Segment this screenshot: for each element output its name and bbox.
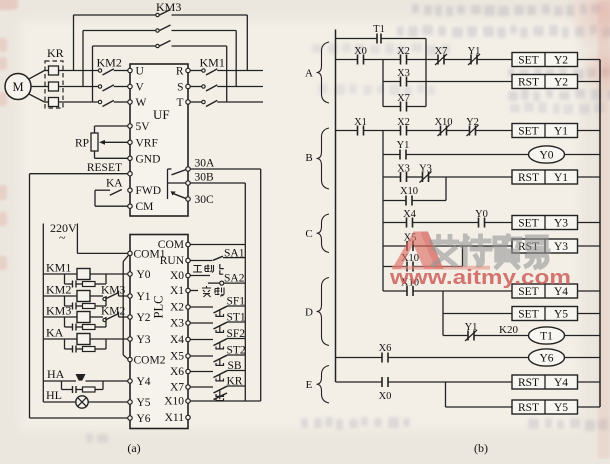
PLC terminal COM1: [128, 248, 166, 260]
svg-text:Y2: Y2: [466, 117, 479, 128]
svg-text:KR: KR: [47, 46, 64, 60]
svg-text:X6: X6: [170, 366, 184, 378]
svg-text:SF1: SF1: [227, 296, 246, 308]
svg-text:K20: K20: [499, 324, 518, 336]
svg-text:R: R: [176, 66, 184, 78]
svg-text:Y1: Y1: [554, 126, 568, 138]
rung B brace: [305, 128, 329, 189]
contact X10 parallel X5: [383, 253, 463, 272]
svg-text:KM1: KM1: [200, 56, 225, 70]
SET Y4 box: [512, 284, 600, 298]
svg-text:Y3: Y3: [419, 164, 432, 175]
UF terminal U: [128, 66, 145, 78]
SET Y1 box: [512, 124, 600, 138]
SET Y3 box: [512, 216, 600, 230]
wire X1 row dash: [190, 290, 198, 292]
svg-text:X10: X10: [164, 396, 184, 408]
watermark text 艾特贸易: [432, 236, 548, 267]
SET Y2 box: [512, 53, 600, 67]
X10 common row contact: [190, 393, 261, 401]
svg-text:X2: X2: [397, 117, 410, 128]
svg-text:(b): (b): [474, 441, 488, 455]
PLC terminal X5: [170, 351, 190, 363]
contact Y1 NC: [444, 46, 512, 65]
wire 30B to inner bus: [190, 182, 245, 184]
wire bypass right drop to S: [235, 31, 237, 87]
RST Y5 row: [446, 406, 513, 408]
svg-text:X4: X4: [403, 209, 417, 220]
UF terminal FWD: [128, 185, 161, 197]
svg-text:SF2: SF2: [227, 328, 246, 340]
label 工频 (power frequency): [193, 265, 214, 273]
PLC terminal X6: [170, 366, 190, 378]
svg-text:X6: X6: [379, 343, 392, 354]
wire COM to inner bus: [190, 244, 245, 246]
wire KR to KM2 row V: [59, 86, 101, 88]
svg-text:Y5: Y5: [554, 402, 568, 414]
svg-text:30B: 30B: [195, 172, 215, 184]
KM3 bypass contact 1: [74, 10, 248, 17]
svg-text:RST: RST: [518, 402, 539, 414]
svg-text:KA: KA: [46, 326, 64, 340]
contact X7 branch: [383, 93, 426, 112]
svg-text:RST: RST: [518, 377, 539, 389]
contactor KM2 main contacts: [97, 56, 129, 107]
UF terminal R: [176, 66, 190, 78]
UF terminal V: [128, 82, 145, 94]
svg-text:Y1: Y1: [137, 291, 151, 303]
selector SA2: [208, 273, 245, 286]
wire X0 row: [190, 275, 210, 277]
wire motor to KR row U: [28, 71, 48, 80]
svg-text:X7: X7: [435, 46, 448, 57]
pushbutton SF2: [190, 328, 245, 349]
contact X2 rung B: [364, 117, 410, 136]
svg-text:www.aitmy.com: www.aitmy.com: [389, 266, 571, 289]
UF terminal 30A: [186, 158, 215, 172]
contactor coil KM3 with RC snubber and KM2 interlock: [43, 304, 128, 331]
svg-text:E: E: [306, 379, 313, 391]
svg-text:X0: X0: [379, 391, 392, 402]
svg-text:X2: X2: [170, 302, 184, 314]
wire bypass right drop to T: [226, 46, 228, 102]
contact X5: [383, 233, 512, 252]
svg-text:C: C: [305, 228, 312, 240]
svg-text:Y0: Y0: [475, 209, 488, 220]
selector SA1 (RUN row): [190, 248, 245, 275]
svg-text:X3: X3: [170, 318, 184, 330]
ladder right rail: [599, 60, 601, 408]
UF terminal RESET: [128, 172, 132, 176]
UF terminal CM: [128, 201, 154, 213]
rung D feed vertical: [442, 291, 444, 336]
svg-text:Y6: Y6: [539, 353, 553, 365]
PLC terminal X2: [170, 302, 190, 314]
rung E brace: [306, 366, 329, 404]
PLC terminal X7: [170, 382, 190, 394]
rung D brace: [305, 278, 329, 346]
coil Y6: [529, 349, 601, 366]
svg-text:X3: X3: [397, 164, 410, 175]
X10 branch join vertical: [445, 177, 447, 201]
svg-text:KR: KR: [227, 376, 243, 388]
wire bypass right drop to R: [246, 15, 248, 71]
watermark aitmy logo A: [392, 232, 444, 270]
svg-text:Y4: Y4: [137, 376, 151, 388]
svg-text:PLC: PLC: [152, 296, 166, 319]
rung B-C shared vertical: [382, 131, 384, 292]
supply left bar: [42, 224, 44, 403]
svg-text:COM2: COM2: [134, 355, 166, 367]
contact Y0: [413, 209, 513, 228]
bus from 30A down to X10 row: [260, 169, 262, 401]
KA contact wiring: [95, 190, 128, 207]
rung C brace: [305, 214, 329, 253]
RST Y2 box: [512, 75, 600, 89]
svg-text:M: M: [12, 80, 23, 94]
svg-text:Y6: Y6: [137, 413, 151, 425]
X10-X5 join vertical: [462, 246, 464, 267]
svg-text:X11: X11: [165, 412, 185, 424]
inverter UF box: [130, 64, 188, 216]
svg-text:X4: X4: [170, 334, 184, 346]
RST Y3 box: [512, 239, 600, 253]
svg-text:X2: X2: [397, 46, 410, 57]
rung A brace: [305, 42, 329, 103]
UF terminal T: [176, 97, 190, 109]
pushbutton ST1: [190, 312, 246, 333]
wire motor to KR row V: [31, 86, 49, 88]
buzzer HA with RC snubber: [43, 367, 128, 393]
PLC terminal X3: [170, 318, 190, 330]
PLC terminal COM: [158, 239, 190, 251]
timer contact T1 branch: [336, 24, 427, 44]
PLC terminal X1: [170, 285, 190, 297]
PLC terminal X11: [165, 412, 191, 424]
svg-text:Y0: Y0: [137, 269, 151, 281]
svg-text:CM: CM: [136, 201, 154, 213]
svg-text:ST1: ST1: [227, 312, 246, 324]
UF terminal 30C: [186, 194, 214, 206]
KM3 bypass contact 2: [83, 25, 236, 32]
timer coil T1: [529, 327, 601, 344]
svg-text:X0: X0: [354, 46, 367, 57]
supply right bar to COM1: [77, 224, 128, 254]
contact X3 branch: [383, 68, 512, 87]
svg-text:30A: 30A: [195, 158, 216, 170]
svg-text:Y2: Y2: [554, 55, 568, 67]
svg-text:Y1: Y1: [468, 46, 481, 57]
wire KR to KM2 row W: [59, 101, 101, 103]
svg-text:B: B: [305, 152, 312, 164]
UF terminal VRF: [128, 137, 158, 149]
contact X2: [364, 46, 410, 65]
svg-text:5V: 5V: [136, 121, 151, 133]
svg-text:A: A: [305, 68, 313, 80]
wire bypass left drop 1: [73, 15, 75, 71]
svg-text:FWD: FWD: [136, 185, 162, 197]
KM3 bypass contact 3: [93, 41, 227, 48]
svg-text:ST2: ST2: [227, 345, 246, 357]
RST Y5 box: [512, 400, 600, 414]
PLC terminal X10: [164, 396, 190, 408]
relay coil KA with RC snubber: [43, 326, 128, 353]
PLC terminal X0: [170, 270, 190, 282]
contact Y3 NC: [407, 164, 513, 183]
contact X10 rung C2: [383, 278, 512, 297]
svg-text:SB: SB: [228, 360, 242, 372]
svg-text:X10: X10: [400, 186, 418, 197]
contactor coil KM1 with RC snubber: [43, 261, 128, 288]
svg-text:Y5: Y5: [554, 309, 568, 321]
contact X7 NC: [407, 46, 448, 65]
svg-text:KM2: KM2: [97, 56, 122, 70]
svg-text:Y3: Y3: [554, 241, 568, 253]
svg-text:T1: T1: [540, 331, 553, 343]
220V supply label: [43, 221, 77, 245]
svg-text:T: T: [176, 97, 183, 109]
svg-text:Y1: Y1: [397, 140, 410, 151]
contact X10 branch rung B: [383, 186, 446, 206]
svg-text:SET: SET: [518, 309, 538, 321]
contactor coil KM2 with RC snubber and KM3 interlock: [43, 283, 128, 310]
contact X3 rung B: [383, 164, 410, 183]
svg-text:RST: RST: [518, 172, 539, 184]
svg-text:~: ~: [59, 231, 66, 245]
contact X4: [383, 209, 417, 228]
svg-text:Y2: Y2: [137, 312, 151, 324]
svg-text:X5: X5: [170, 351, 184, 363]
svg-text:Y1: Y1: [554, 172, 568, 184]
contact X1: [336, 117, 367, 136]
contact Y1 NC rung D: [443, 322, 529, 341]
contact Y2 NC: [447, 117, 513, 136]
svg-text:VRF: VRF: [136, 137, 158, 149]
rung E branch vertical: [445, 382, 447, 407]
svg-text:KA: KA: [106, 178, 123, 190]
svg-text:SET: SET: [518, 126, 538, 138]
svg-text:RST: RST: [518, 77, 539, 89]
contactor KM1 main contacts: [190, 56, 263, 107]
contact X10 NC: [407, 117, 453, 136]
wire RESET to left rail down to Y6: [30, 174, 129, 418]
inverter relay changeover 30A-30B-30C: [168, 169, 187, 199]
svg-text:KM2: KM2: [46, 283, 71, 297]
wire KR to KM2 row U: [59, 70, 101, 72]
svg-text:HA: HA: [47, 367, 65, 381]
wire bypass left drop 3: [92, 46, 94, 102]
parallel branch right vertical (rung A): [425, 39, 427, 107]
svg-text:X3: X3: [397, 68, 410, 79]
svg-text:S: S: [177, 82, 183, 94]
svg-text:X10: X10: [434, 117, 452, 128]
contact Y1 branch: [383, 140, 529, 160]
PLC box: [130, 235, 188, 429]
thermal relay KR (dashed box with heaters): [45, 46, 64, 108]
svg-text:Y0: Y0: [539, 150, 553, 162]
svg-text:X1: X1: [170, 285, 184, 297]
relay contact KA (FWD-CM): [106, 178, 128, 191]
UF terminal S: [177, 82, 190, 94]
svg-text:RESET: RESET: [87, 162, 122, 174]
label 变频 (variable frequency): [202, 286, 224, 297]
UF terminal GND: [128, 153, 161, 165]
svg-text:SET: SET: [518, 218, 538, 230]
svg-text:COM: COM: [158, 239, 184, 251]
svg-text:GND: GND: [136, 153, 161, 165]
RST Y1 box: [512, 170, 600, 184]
potentiometer RP: [75, 126, 128, 158]
wire bypass left drop 2: [82, 31, 84, 87]
pushbutton KR: [190, 376, 245, 397]
pushbutton SB: [190, 360, 245, 381]
svg-text:V: V: [136, 82, 145, 94]
PLC terminal Y6: [128, 413, 151, 425]
svg-text:RUN: RUN: [160, 255, 185, 267]
svg-text:W: W: [136, 97, 147, 109]
svg-text:Y3: Y3: [554, 218, 568, 230]
pushbutton ST2: [190, 345, 246, 366]
svg-text:X0: X0: [170, 270, 184, 282]
svg-text:UF: UF: [153, 107, 170, 122]
svg-text:KM1: KM1: [46, 261, 71, 275]
PLC terminal Y4: [128, 376, 151, 388]
PLC terminal COM2: [128, 355, 166, 367]
svg-text:X7: X7: [397, 93, 410, 104]
UF terminal 5V: [128, 121, 150, 133]
PLC terminal Y0: [128, 269, 151, 281]
ladder left rail: [335, 30, 337, 383]
svg-text:Y4: Y4: [554, 377, 568, 389]
svg-text:SET: SET: [518, 55, 538, 67]
svg-text:KM3: KM3: [156, 0, 181, 14]
wire COM1 to COM2 inner bus: [123, 255, 128, 359]
svg-text:X7: X7: [170, 382, 184, 394]
svg-text:30C: 30C: [195, 194, 215, 206]
inner bus 30B down to X10 row: [244, 183, 246, 401]
svg-text:T1: T1: [373, 24, 385, 35]
RST Y4 box: [512, 375, 600, 389]
SET Y5 box: [512, 307, 600, 321]
contact X0 rung E: [336, 377, 513, 402]
contact X6: [336, 343, 530, 363]
PLC terminal Y5: [128, 397, 151, 409]
svg-text:KM3: KM3: [46, 304, 71, 318]
svg-text:Y5: Y5: [137, 397, 151, 409]
motor M: [5, 74, 31, 100]
svg-text:Y3: Y3: [137, 334, 151, 346]
PLC terminal RUN: [160, 255, 190, 267]
UF terminal 30B: [186, 172, 214, 186]
contact X0: [336, 46, 367, 65]
svg-text:X1: X1: [354, 117, 367, 128]
svg-text:U: U: [136, 66, 145, 78]
coil Y0: [529, 146, 601, 163]
PLC terminal X4: [170, 334, 190, 346]
PLC terminal Y3: [128, 334, 151, 346]
svg-text:Y1: Y1: [465, 322, 478, 333]
svg-text:(a): (a): [127, 441, 140, 455]
svg-text:D: D: [305, 307, 313, 319]
parallel branch left vertical (rung A): [382, 60, 384, 107]
pushbutton SF1: [190, 296, 245, 317]
wire motor to KR row W: [28, 94, 48, 102]
svg-text:RP: RP: [75, 138, 89, 150]
PLC terminal Y1: [128, 291, 151, 303]
PLC terminal Y2: [128, 312, 151, 324]
UF terminal W: [128, 97, 147, 109]
wire 30A to right bus: [190, 168, 261, 170]
SET Y5 row: [443, 313, 512, 315]
svg-text:Y2: Y2: [554, 77, 568, 89]
lamp HL: [43, 388, 128, 408]
svg-text:HL: HL: [46, 388, 62, 402]
